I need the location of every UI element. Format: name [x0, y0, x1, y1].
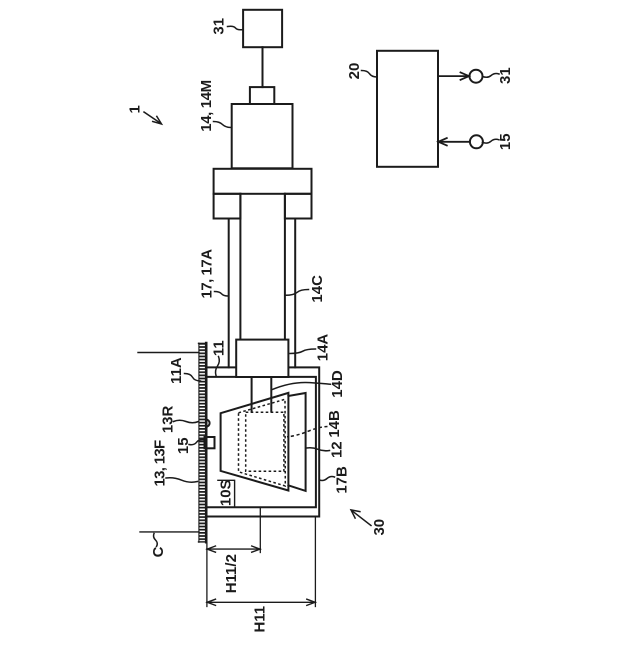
motor shaft block — [250, 87, 274, 104]
tube outer wall right — [294, 219, 296, 368]
leader C — [154, 534, 158, 547]
signal arrow from sensor circle 15 — [438, 138, 470, 145]
leader 14D long — [272, 382, 331, 389]
svg-text:14B: 14B — [326, 410, 343, 438]
housing 17B inner outline — [206, 377, 316, 507]
screw shaft 14C left edge — [239, 194, 241, 340]
rack 13 toothed strip — [199, 343, 207, 542]
centerline C upper segment — [138, 352, 199, 354]
leader 11A — [185, 374, 201, 382]
mirror 12 back face visible edges — [288, 393, 305, 491]
terminal circle 31 — [470, 70, 483, 83]
leader 13,13F — [166, 478, 198, 482]
dimension line H11/2 — [207, 546, 260, 552]
centerline C lower segment — [140, 531, 199, 533]
leader 31 circle — [483, 74, 499, 78]
leader 12 — [307, 448, 330, 451]
svg-text:10S: 10S — [218, 479, 235, 506]
svg-text:20: 20 — [346, 63, 363, 80]
svg-text:13, 13F: 13, 13F — [152, 440, 169, 487]
block 14A — [236, 340, 288, 377]
leader 17,17A — [215, 292, 229, 297]
svg-text:14A: 14A — [315, 334, 332, 362]
phantom mirror 14B dashed rectangle — [246, 412, 284, 471]
sensor dog semicircle on plate 11 — [206, 420, 210, 427]
tube outer wall left 17A — [228, 219, 230, 368]
signal arrow to encoder circle 31 — [438, 72, 469, 79]
svg-text:31: 31 — [497, 67, 514, 84]
svg-text:13R: 13R — [159, 405, 176, 433]
svg-text:31: 31 — [211, 18, 228, 35]
svg-text:1: 1 — [127, 105, 144, 113]
rod 14D left edge — [251, 377, 253, 412]
dimension line H11 — [207, 599, 316, 605]
svg-text:11: 11 — [210, 340, 227, 356]
mirror 12 front face trapezoid — [221, 393, 289, 491]
dimension extension line middle (H11/2) — [259, 507, 261, 552]
svg-text:14D: 14D — [329, 370, 346, 398]
leader 31 top — [228, 26, 244, 30]
10S pointer bracket — [218, 480, 235, 507]
housing 17B outer outline — [206, 367, 319, 516]
leader 11 — [216, 357, 220, 376]
leader 15 circle — [482, 139, 499, 143]
wire from box 31 to motor shaft — [262, 47, 264, 87]
leader 20 — [362, 71, 378, 78]
leader 14B dashed — [287, 427, 328, 437]
leader 13R — [174, 420, 199, 423]
rod 14D right edge — [270, 377, 272, 412]
motor 14M body — [232, 104, 293, 168]
svg-text:H11: H11 — [251, 606, 268, 633]
svg-text:H11/2: H11/2 — [223, 554, 240, 593]
phantom mirror 14B dashed trapezoid — [239, 399, 286, 486]
svg-text:17B: 17B — [334, 466, 351, 494]
dimension extension line left — [206, 543, 208, 607]
leader 17B — [320, 477, 335, 481]
svg-text:17, 17A: 17, 17A — [199, 249, 216, 299]
svg-text:14, 14M: 14, 14M — [198, 80, 215, 131]
box 31 (encoder) — [243, 10, 282, 47]
svg-text:15: 15 — [175, 437, 192, 454]
right leg block — [285, 194, 312, 219]
svg-text:14C: 14C — [309, 275, 326, 303]
leader 14A — [290, 349, 316, 354]
svg-text:11A: 11A — [168, 357, 185, 384]
leader 14,14M — [214, 122, 232, 128]
leader 14C — [286, 290, 309, 296]
svg-text:12: 12 — [328, 441, 345, 458]
left leg block — [214, 194, 241, 219]
dimension extension line right (H11) — [314, 517, 316, 607]
terminal circle 15 — [470, 135, 483, 148]
svg-text:30: 30 — [371, 519, 388, 536]
flange plate — [214, 169, 312, 194]
controller box 20 — [377, 51, 438, 167]
screw shaft 14C right edge — [284, 194, 286, 340]
sensor 15 block — [205, 437, 215, 448]
svg-text:C: C — [150, 546, 167, 557]
leader 15 left — [189, 440, 204, 445]
arrow for label 1 — [144, 112, 162, 124]
arrow for label 30 — [351, 510, 371, 526]
svg-text:15: 15 — [497, 133, 514, 150]
